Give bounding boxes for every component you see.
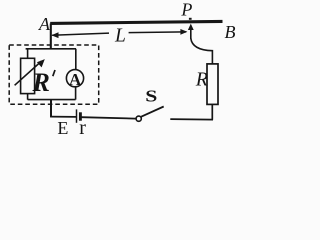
svg-text:R: R (32, 68, 50, 97)
svg-text:S: S (145, 88, 157, 106)
svg-text:R: R (195, 68, 208, 90)
svg-text:A: A (69, 70, 82, 89)
svg-text:B: B (225, 22, 236, 42)
svg-text:E: E (57, 118, 68, 138)
svg-text:P: P (180, 0, 192, 20)
svg-text:A: A (38, 14, 51, 34)
svg-text:L: L (114, 25, 126, 46)
svg-text:r: r (79, 117, 86, 139)
